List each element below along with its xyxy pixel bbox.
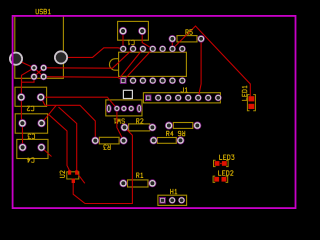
wire diagonal across IC body 1 — [120, 49, 143, 78]
wire C3 left to C4 left pad — [21, 123, 23, 147]
label SW1 (rotated 180) — [114, 119, 124, 124]
wire C1 right pad down — [142, 34, 153, 49]
wire IC pin 6 to LED1 via apex — [172, 26, 250, 96]
wire USB D+ to IC pin 2 — [44, 49, 133, 68]
switch SW1 slot pads — [106, 104, 142, 113]
label J1 — [181, 88, 187, 93]
LED1 package outline — [247, 95, 255, 111]
wire U2 pin 2 stub — [77, 173, 85, 184]
wire R5 right pad to J1 pin 6 — [198, 42, 201, 98]
wires (bottom copper, red) — [21, 26, 250, 204]
resistor R4 body — [173, 123, 193, 129]
capacitor C1 pads — [119, 27, 146, 35]
label C2 (rotated 180) — [27, 106, 34, 111]
header H1 package outline — [158, 195, 187, 205]
transistor U2 package outline — [67, 172, 79, 179]
wire C2 right pad to R3 left pad — [41, 97, 96, 140]
resistor R5 body — [177, 36, 197, 42]
capacitor C4 package outline — [17, 139, 48, 158]
USB1 mounting hole 1 — [9, 52, 23, 66]
resistor R3 body — [99, 137, 119, 144]
board outline — [13, 16, 296, 208]
wire to U2 pin 2 — [59, 107, 77, 171]
wire to U2 pin 1 — [49, 114, 70, 170]
wire USB pad down-left — [22, 68, 35, 82]
LED2 package outline — [213, 176, 228, 182]
capacitor C4 pads — [19, 143, 46, 151]
wire crossing X 1 — [34, 68, 44, 77]
label R3 (rotated 180) — [104, 145, 111, 150]
resistor R2 pads — [121, 123, 157, 131]
label R1 — [137, 173, 143, 178]
resistor R2 body — [129, 124, 150, 131]
LED2 smd pads — [214, 177, 226, 182]
connector USB1 package outline — [15, 16, 64, 78]
header J1 round pads — [155, 94, 222, 101]
op-amp U1 pads bottom row — [130, 77, 186, 84]
USB1 signal pads — [31, 64, 48, 80]
resistor R1 body — [128, 180, 149, 187]
resistor R6 pads — [150, 136, 185, 144]
wire SW1 pin 2 to R3 right pad — [117, 109, 124, 141]
label LED1 (rotated 90) — [242, 86, 247, 100]
wire C3 right pad up — [42, 105, 57, 123]
switch SW1 button — [123, 90, 132, 98]
wire crossing X 2 — [34, 68, 44, 77]
label USB1 — [36, 9, 50, 14]
resistor R4 pads — [165, 122, 201, 130]
header H1 pin 1 square pad — [159, 197, 166, 204]
wire R5 left pad down — [171, 42, 173, 49]
wire C1 left pad down — [122, 34, 124, 49]
wire diagonal across IC body 2 — [122, 49, 153, 82]
label LED2 — [219, 171, 234, 176]
LED3 smd pads — [215, 161, 227, 166]
header J1 package outline — [143, 93, 220, 103]
resistor R3 pads — [91, 137, 127, 145]
op-amp U1 DIP-14 body — [109, 52, 186, 76]
label R5 — [186, 30, 193, 35]
capacitor C3 package outline — [15, 114, 47, 133]
wire hole1 to USB pad — [21, 62, 34, 68]
wire C2 left to C3 left pad — [21, 97, 22, 123]
header J1 pin 1 square pad — [145, 95, 151, 101]
resistor R5 pads — [169, 35, 205, 43]
capacitor C3 pads — [18, 119, 45, 127]
label C3 (rotated 180) — [28, 134, 35, 139]
LED3 package outline — [214, 160, 229, 166]
wire C4 right pad stub — [41, 147, 51, 156]
label C1 (rotated 180) — [128, 40, 134, 45]
wire USB pad down — [21, 77, 34, 98]
capacitor C2 pads — [17, 93, 45, 101]
op-amp U1 pin 1 square pad — [120, 77, 127, 84]
USB1 mounting hole 2 — [54, 50, 68, 64]
label H1 — [171, 189, 177, 194]
label R4 — [167, 131, 174, 136]
resistor R6 body — [157, 138, 176, 144]
switch SW1 body — [106, 100, 142, 116]
capacitor C2 package outline — [15, 87, 47, 106]
transistor U2 smd pads — [68, 170, 78, 183]
wire C2 right pad to SW1 pin 2 — [41, 97, 117, 108]
resistor R1 pads — [119, 179, 156, 187]
wire USB D- to IC pin 1 — [44, 77, 124, 81]
LED1 smd pads — [248, 96, 254, 109]
switch SW1 round pads — [114, 105, 135, 111]
capacitor C1 package outline — [118, 21, 149, 40]
op-amp U1 pads top row — [120, 45, 186, 52]
wire R2 left pad to U2 pin 3 — [73, 127, 132, 203]
wire hole2 to IC pin 14 — [67, 48, 123, 58]
label U2 (rotated 90) — [60, 171, 65, 178]
label R6 (rotated 180) — [178, 131, 185, 136]
label LED3 — [220, 155, 235, 160]
label C4 (rotated 180) — [28, 158, 35, 163]
header H1 round pads — [169, 197, 185, 204]
label R2 — [137, 119, 144, 124]
